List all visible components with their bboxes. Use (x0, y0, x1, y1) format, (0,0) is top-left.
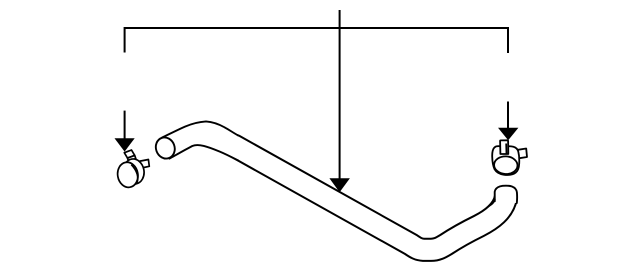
right clamp tab (518, 149, 527, 159)
right clamp screw post inner line (505, 144, 507, 154)
right clamp (492, 140, 527, 175)
arrowhead center (329, 178, 350, 192)
right clamp screw post (500, 140, 508, 154)
hose right tip inner corner connector (489, 200, 495, 206)
hose outer outline (diagonal, bottom corner, right hook) (234, 146, 506, 250)
right clamp body (492, 146, 519, 175)
left clamp (116, 150, 150, 189)
leader line left (124, 111, 126, 139)
left clamp screw head top face (124, 150, 134, 158)
bracket (top callout) (125, 28, 508, 53)
leader line center (339, 10, 341, 179)
right clamp inner ellipse (494, 156, 518, 175)
left clamp back rim (122, 157, 146, 185)
hose right tip cap fill (squarish cap) (495, 186, 517, 203)
arrowhead right (498, 128, 518, 141)
left clamp tab (138, 160, 149, 169)
leader line right (507, 102, 509, 129)
hose right tip cap outline (495, 186, 517, 203)
left clamp inner arc (131, 165, 137, 184)
hose hump top edge (162, 121, 238, 137)
hose hump fill (left section with varying width) (162, 121, 238, 160)
hose inner white (234, 146, 506, 250)
hose left opening ellipse (153, 135, 178, 161)
left clamp front ellipse (116, 161, 140, 189)
hose hump bottom edge (170, 145, 239, 160)
left clamp screw head front face (128, 155, 136, 161)
arrowhead left (115, 138, 135, 151)
